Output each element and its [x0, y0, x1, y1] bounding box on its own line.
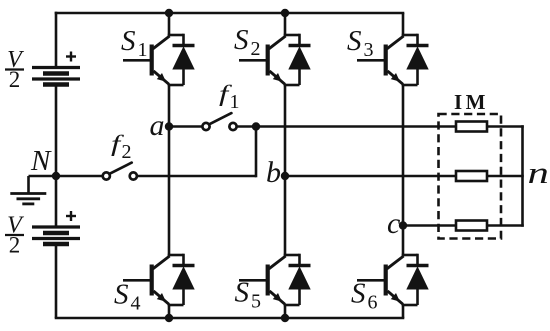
junction top rail leg a: [165, 9, 173, 17]
value label V/2 lower: [5, 213, 24, 258]
battery V/2 lower: [32, 211, 80, 244]
svg-text:1: 1: [138, 39, 148, 61]
junction a-line: [252, 122, 260, 130]
diode D1: [168, 34, 195, 85]
wire N to ground: [29, 176, 57, 194]
wire top DC+ rail: [55, 12, 405, 15]
transistor S1: [121, 25, 170, 84]
junction bottom rail leg b: [281, 314, 289, 322]
motor IM dashed box: [439, 114, 502, 239]
wire f2 to a-line: [137, 127, 256, 178]
wire motor phase b: [285, 175, 456, 178]
wire motor phase b right: [487, 175, 524, 178]
svg-text:S: S: [351, 278, 366, 310]
svg-text:n: n: [528, 156, 549, 190]
svg-text:N: N: [30, 145, 52, 177]
wire a to switch f1: [169, 125, 203, 128]
junction bottom rail leg a: [165, 314, 173, 322]
node c: [387, 207, 407, 240]
svg-text:4: 4: [131, 293, 141, 315]
wire leg b upper: [284, 13, 287, 36]
wire f1 to junction: [237, 125, 456, 128]
wire leg c upper: [402, 13, 405, 36]
svg-text:S: S: [235, 277, 250, 309]
transistor S6: [351, 256, 404, 314]
switch f1: [202, 81, 239, 130]
node b: [266, 156, 289, 189]
wire leg b lower: [284, 304, 287, 318]
wire leg c middle: [402, 84, 405, 256]
svg-text:IM: IM: [454, 90, 489, 114]
wire leg b middle: [284, 84, 287, 256]
svg-text:b: b: [266, 156, 281, 189]
wire left DC rail lower: [55, 244, 58, 318]
label IM: [454, 90, 489, 114]
transistor S3: [347, 25, 404, 84]
svg-text:S: S: [114, 279, 129, 311]
wire left DC rail middle: [55, 85, 58, 228]
node n label: [528, 156, 549, 190]
wire left DC rail upper: [55, 12, 58, 68]
wire leg c lower: [402, 304, 405, 318]
diode D4: [168, 254, 195, 305]
wire motor phase c: [403, 224, 456, 227]
node a: [150, 109, 174, 142]
svg-text:S: S: [347, 25, 362, 57]
wire leg a upper: [168, 13, 171, 36]
wire motor phase a right: [487, 125, 524, 128]
svg-text:2: 2: [251, 38, 261, 60]
switch f2: [103, 131, 137, 179]
diode D2: [284, 34, 311, 85]
diode D6: [402, 254, 429, 305]
svg-text:2: 2: [122, 141, 132, 163]
transistor S5: [235, 256, 286, 313]
svg-text:S: S: [234, 24, 249, 56]
ground: [10, 194, 46, 204]
wire bottom DC- rail: [55, 317, 405, 320]
svg-text:a: a: [150, 109, 165, 142]
resistor winding b: [456, 171, 487, 181]
svg-text:c: c: [387, 207, 400, 240]
node N: [30, 145, 60, 180]
svg-text:2: 2: [9, 67, 21, 92]
svg-text:S: S: [121, 25, 136, 57]
resistor winding a: [456, 122, 487, 132]
wire N to switch f2: [56, 175, 103, 178]
transistor S4: [114, 256, 170, 315]
value label V/2 upper: [5, 47, 24, 92]
resistor winding c: [456, 221, 487, 231]
svg-text:6: 6: [368, 292, 378, 314]
diode D5: [284, 254, 311, 305]
svg-text:1: 1: [230, 91, 240, 113]
svg-text:2: 2: [9, 233, 21, 258]
wire neutral vertical: [521, 125, 524, 227]
wire leg a middle: [168, 84, 171, 256]
battery V/2 upper: [32, 52, 80, 85]
wire motor phase c right: [487, 224, 524, 227]
diode D3: [402, 34, 429, 85]
junction top rail leg b: [281, 9, 289, 17]
transistor S2: [234, 24, 286, 84]
svg-text:3: 3: [364, 39, 374, 61]
svg-text:5: 5: [251, 291, 261, 313]
wire leg a lower: [168, 304, 171, 318]
